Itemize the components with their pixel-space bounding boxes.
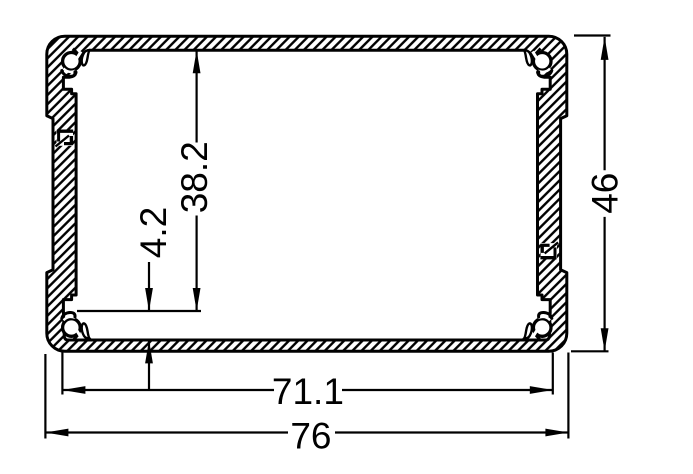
dimension 76 left line segment bbox=[45, 431, 288, 433]
screw boss bottom-right bbox=[524, 312, 552, 340]
arrowhead 46 down bbox=[601, 328, 609, 351]
dimension 4.2 upper line segment bbox=[148, 262, 150, 311]
dimension 76 right line segment bbox=[335, 431, 568, 433]
arrowhead 38.2 up bbox=[193, 50, 201, 73]
svg-text:38.2: 38.2 bbox=[174, 141, 215, 213]
wall channel detail left bbox=[56, 130, 74, 147]
screw boss top-left (ring, slit, finger pod, retaining hook) bbox=[62, 49, 90, 77]
arrowhead 71.1 left bbox=[62, 386, 85, 394]
extension line 46 top bbox=[574, 34, 611, 36]
arrowhead 76 right bbox=[545, 429, 568, 437]
arrowhead 4.2 up bbox=[145, 340, 153, 363]
dimension 46 upper line segment bbox=[603, 37, 605, 170]
enclosure extrusion wall cross-section (hatched profile body) bbox=[47, 36, 567, 351]
arrowhead 4.2 down bbox=[145, 288, 153, 311]
extension line 71.1 left bbox=[61, 353, 63, 395]
extension line at internal ledge level (for 38.2 / 4.2) bbox=[77, 310, 201, 312]
arrowhead 71.1 right bbox=[530, 386, 553, 394]
extension line 46 bottom bbox=[571, 350, 609, 352]
arrowhead 38.2 down bbox=[193, 288, 201, 311]
svg-text:71.1: 71.1 bbox=[272, 371, 344, 412]
svg-text:76: 76 bbox=[290, 416, 331, 457]
screw boss top-right bbox=[524, 49, 552, 77]
dimension 38.2 lower line segment bbox=[196, 216, 198, 312]
arrowhead 76 left bbox=[45, 429, 68, 437]
extension line 71.1 right bbox=[552, 353, 554, 395]
svg-text:4.2: 4.2 bbox=[133, 207, 174, 258]
extension line 76 right bbox=[567, 353, 569, 439]
dimension 46 lower line segment bbox=[603, 217, 605, 351]
dimension 4.2 lower line segment bbox=[148, 340, 150, 390]
wall channel detail right bbox=[540, 242, 558, 259]
arrowhead 46 up bbox=[601, 37, 609, 60]
screw boss bottom-left bbox=[62, 312, 90, 340]
extension line 76 left bbox=[44, 354, 46, 439]
dimension 71.1 left line segment bbox=[62, 389, 274, 391]
svg-text:46: 46 bbox=[585, 173, 626, 214]
dimension 71.1 right line segment bbox=[342, 389, 553, 391]
dimension 38.2 upper line segment bbox=[196, 50, 198, 142]
